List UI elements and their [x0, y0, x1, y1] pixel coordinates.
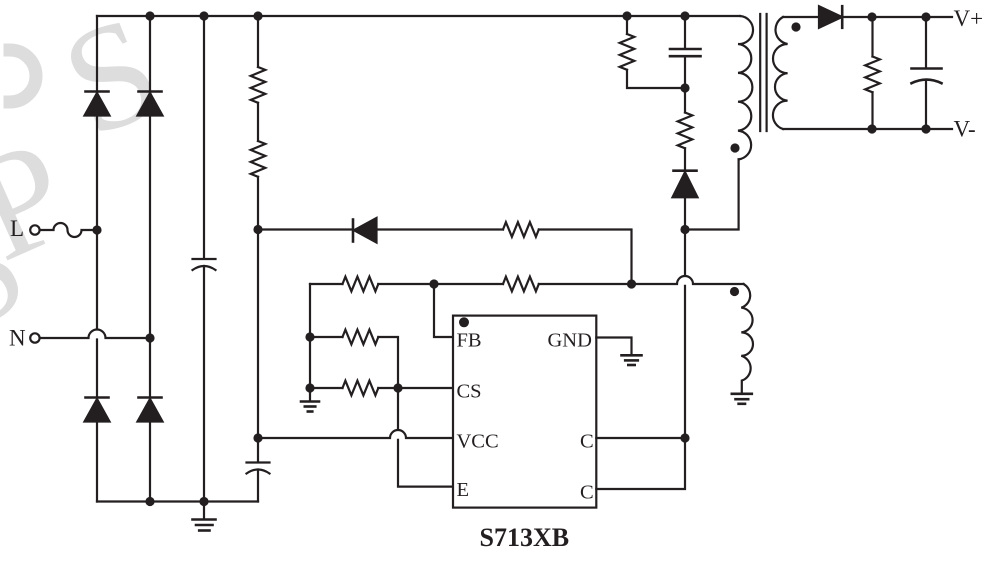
wire fb row y284 [310, 283, 343, 285]
primary polarity dot [730, 143, 739, 152]
wire secondary top to diode [783, 16, 819, 18]
svg-text:L: L [10, 216, 24, 241]
resistor R7 [343, 381, 379, 396]
resistor R9 [678, 113, 693, 149]
resistor R8 [620, 34, 635, 70]
capacitor C3 snubber [670, 48, 701, 51]
snubber resistor column [626, 16, 628, 34]
wire diode to node [684, 197, 686, 229]
fuse F1 [40, 223, 97, 237]
resistor R10 load [871, 17, 873, 57]
wire cap to R9 [684, 56, 686, 112]
node N junction [145, 333, 154, 342]
wire row2 to E [378, 337, 398, 430]
watermark [0, 0, 181, 366]
wire left column A [96, 16, 98, 329]
wire column D bottom [257, 470, 259, 502]
terminal N [30, 333, 39, 342]
resistor R5 [503, 277, 539, 292]
wire primary bottom link [685, 159, 739, 229]
svg-text:GND: GND [548, 329, 592, 351]
wire FB stub [434, 284, 453, 337]
svg-text:C: C [580, 430, 594, 452]
wire to corner [539, 230, 632, 285]
wire R8 to node [627, 70, 685, 88]
svg-text:VCC: VCC [457, 430, 499, 452]
svg-text:S: S [42, 0, 182, 169]
wire feedback line y229 [258, 228, 353, 230]
secondary polarity dot [791, 22, 800, 31]
resistor R3 [503, 222, 539, 237]
ground (aux) [732, 392, 752, 395]
wire column C lower [203, 266, 205, 502]
svg-text:N: N [9, 326, 26, 351]
wire column C upper [203, 16, 205, 259]
junction dots bottom rail [145, 497, 154, 506]
wire left gnd column [309, 284, 311, 401]
wire y284 with hop to aux [539, 276, 744, 284]
junction dot fb node [429, 279, 438, 288]
svg-text:E: E [457, 479, 470, 501]
capacitor C4 output [925, 17, 927, 68]
wire top rail [97, 15, 740, 17]
resistor R4 [343, 277, 379, 292]
diode D1 [86, 90, 109, 93]
wire drain column [684, 230, 686, 276]
wire row3 y388 [310, 387, 343, 389]
wire r4 to r5 [378, 283, 503, 285]
transformer T1 primary [738, 16, 753, 159]
ground (IC) [622, 354, 642, 357]
wire between R1 R2 [257, 103, 259, 141]
wire row2 y337 [310, 336, 343, 338]
transformer core [759, 14, 761, 131]
terminal L [30, 225, 39, 234]
transformer T1 secondary [773, 17, 788, 129]
aux polarity dot [730, 287, 739, 296]
wire V- rail [783, 128, 952, 130]
IC U1 S713XB [453, 316, 596, 508]
resistor R6 [343, 330, 379, 345]
wire GND pin [596, 338, 631, 355]
wire C lower [596, 438, 685, 489]
diode D7 output [819, 6, 842, 28]
junction dot fb corner [627, 279, 636, 288]
wire CS [378, 387, 453, 389]
junction dots drain column [680, 83, 689, 92]
svg-text:CS: CS [457, 380, 482, 402]
junction dots divider [305, 332, 314, 341]
svg-text:C: C [580, 481, 594, 503]
junction dots column D [253, 225, 262, 234]
wire column D middle [257, 177, 259, 462]
wire N with hop [40, 330, 150, 339]
svg-text:S713XB: S713XB [480, 523, 570, 552]
wire VCC with hop [258, 430, 453, 438]
junction dots top rail [145, 11, 154, 20]
node L junction [92, 225, 101, 234]
wire C upper [596, 437, 685, 439]
diode D4 [139, 396, 162, 399]
capacitor C1 bulk [193, 258, 216, 260]
wire bottom rail [97, 500, 258, 502]
wire snubber cap top [684, 16, 686, 49]
wire R9 to diode [684, 148, 686, 170]
ground (divider) [301, 400, 319, 403]
resistor R1 [251, 67, 266, 103]
diode D3 [86, 396, 109, 399]
svg-text:V+: V+ [954, 6, 984, 31]
pin1 dot [459, 317, 469, 327]
junction dots output [867, 12, 876, 21]
wire column D upper stub [257, 16, 259, 67]
aux winding L1 [741, 284, 753, 393]
diode D5 [352, 220, 355, 242]
resistor R2 [251, 141, 266, 177]
capacitor C2 vcc [247, 461, 270, 463]
wire V+ rail [842, 16, 952, 18]
wire column B [149, 16, 151, 502]
ground (bottom rail) [203, 502, 205, 520]
svg-text:V-: V- [954, 117, 976, 142]
svg-text:FB: FB [457, 329, 482, 351]
diode D2 [139, 90, 162, 93]
diode D6 clamp [674, 169, 697, 172]
